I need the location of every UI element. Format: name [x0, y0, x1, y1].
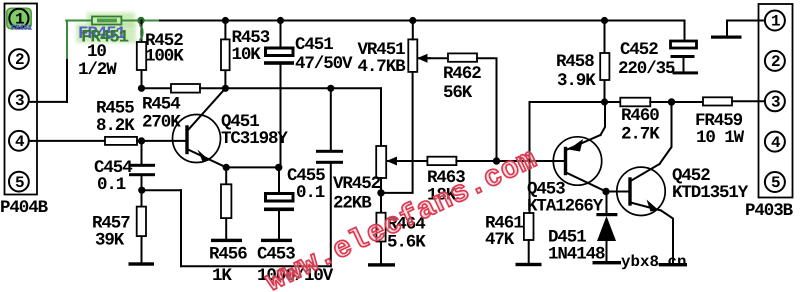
P403B pin 3 [765, 91, 785, 111]
transistor Q453 [553, 102, 606, 192]
svg-text:FR451: FR451 [11, 25, 32, 33]
svg-text:R454: R454 [142, 95, 180, 115]
svg-text:22KB: 22KB [333, 194, 372, 214]
resistor R461 [524, 213, 534, 240]
resistor R455 [105, 137, 137, 145]
svg-text:1/2W: 1/2W [78, 60, 117, 80]
P404B pin 4 [9, 131, 29, 151]
wire rail to VR452 top [380, 88, 382, 146]
junction R452 bottom [138, 85, 145, 92]
junction base node [138, 137, 145, 144]
svg-text:220/35: 220/35 [618, 59, 675, 79]
VR452 wiper arrow [387, 157, 400, 166]
resistor R463 [427, 157, 456, 165]
svg-text:ybx8: ybx8 [621, 253, 659, 271]
resistor FR459 [703, 97, 732, 105]
svg-text:0.1: 0.1 [296, 183, 325, 203]
svg-text:5: 5 [771, 174, 781, 192]
ground bar under C453 [261, 239, 292, 242]
junction R458 bottom rail [601, 98, 608, 105]
junction top of VR451 [409, 17, 416, 24]
junction VR452 bottom / R464 [377, 189, 384, 196]
resistor R453 [221, 39, 230, 70]
wire R462 to junction drop [477, 58, 497, 161]
ground bar under R464 [368, 263, 395, 266]
svg-text:2.7K: 2.7K [621, 125, 660, 145]
ground bar under R461 [516, 263, 542, 266]
resistor R464 leads [380, 193, 382, 213]
P404B pin 3 [9, 90, 29, 110]
svg-text:C451: C451 [295, 35, 333, 55]
wire riser upper part highlighted green [66, 21, 68, 59]
svg-text:0.1: 0.1 [97, 175, 126, 195]
junction R462/R463/Q453 base [493, 157, 500, 164]
junction top of C451 [277, 17, 284, 24]
wire VR451 return [381, 72, 413, 193]
svg-text:10 1W: 10 1W [696, 128, 745, 148]
resistor R457 leads [141, 190, 143, 206]
svg-text:100K: 100K [145, 47, 184, 67]
svg-text:4: 4 [15, 133, 25, 151]
P404B pin 1 highlight [7, 8, 31, 29]
resistor R464 [376, 213, 385, 242]
resistor R456 leads [225, 167, 227, 184]
svg-text:8.2K: 8.2K [96, 116, 135, 136]
wire x529 vertical [530, 102, 605, 213]
wire R454 row [142, 87, 172, 89]
svg-text:2: 2 [15, 51, 25, 69]
svg-text:5: 5 [15, 174, 25, 192]
wire rail y102 [605, 101, 621, 103]
svg-text:1: 1 [771, 13, 781, 31]
wire bottom rail [181, 265, 331, 267]
wire pin3 P404B to riser [29, 101, 67, 103]
wire drop x181 [180, 190, 182, 266]
ground bar under Q452 emitter [659, 263, 687, 266]
svg-text:cn: cn [668, 253, 687, 271]
svg-text:270K: 270K [142, 113, 181, 133]
svg-text:VR452: VR452 [333, 174, 381, 194]
svg-text:10K: 10K [232, 45, 262, 65]
svg-text:P404B: P404B [0, 198, 49, 218]
junction Q453 collector / D451 / Q452 base [602, 188, 609, 195]
potentiometer VR451 [408, 39, 417, 72]
wire emitter row [226, 166, 279, 168]
junction C455 top [327, 85, 334, 92]
P404B pin 2 [9, 49, 29, 69]
wire top rail elbow to C452 [684, 21, 686, 42]
junction dot node A (green) [137, 17, 144, 24]
P403B pin 5 [765, 172, 785, 192]
svg-text:3: 3 [771, 94, 781, 112]
junction top of R458 [601, 17, 608, 24]
ground bar under C452 [673, 71, 699, 74]
resistor R462 [448, 53, 477, 61]
svg-text:): ) [136, 23, 145, 43]
resistor R452 [137, 42, 146, 70]
ground bar under D451 [593, 261, 622, 264]
svg-text:39K: 39K [95, 231, 125, 251]
resistor R458 [600, 53, 609, 80]
resistor R460 [620, 98, 650, 107]
capacitor C451 leads [280, 21, 282, 47]
resistor R454 [171, 84, 200, 93]
svg-text:10: 10 [87, 42, 106, 62]
svg-text:P403B: P403B [745, 201, 794, 221]
transistor Q452 [617, 102, 673, 263]
resistor R457 [137, 207, 146, 237]
ground bar under R457 [129, 262, 155, 265]
svg-text:C452: C452 [620, 40, 658, 60]
resistor R452 leads [141, 21, 143, 43]
P403B pin 4 [765, 132, 785, 152]
junction Q451 emitter / R456 [223, 164, 230, 171]
potentiometer VR452 [376, 146, 386, 178]
resistor R456 [221, 184, 231, 218]
wire Q453 base stub [554, 160, 566, 162]
capacitor C451 [266, 48, 294, 56]
svg-text:KTD1351Y: KTD1351Y [672, 183, 749, 203]
svg-text:R460: R460 [621, 106, 659, 126]
svg-text:R458: R458 [556, 52, 594, 72]
VR452 bottom lead [380, 178, 382, 193]
svg-text:KTA1266Y: KTA1266Y [527, 197, 604, 217]
P404B pin 1 [9, 9, 28, 29]
capacitor C453 [266, 194, 294, 202]
svg-text:3: 3 [15, 92, 25, 110]
wire C454 top lead [141, 141, 143, 164]
P403B pin 2 [765, 51, 785, 71]
wire to bottom-rail drop [142, 189, 181, 191]
wire top rail [160, 20, 685, 22]
capacitor C455 [316, 150, 343, 153]
svg-text:2: 2 [771, 53, 781, 71]
svg-text:47K: 47K [485, 230, 515, 250]
capacitor C455 lead top [330, 88, 332, 150]
capacitor C452 [671, 41, 697, 48]
junction C454/R457 [138, 187, 145, 194]
diode D451 [596, 192, 617, 263]
wire pin1 P403B to ground [727, 21, 765, 36]
svg-text:56K: 56K [443, 83, 473, 103]
wire wiper row y161 [397, 160, 427, 162]
resistor R453 leads [224, 21, 226, 40]
svg-text:47/50V: 47/50V [295, 54, 353, 74]
svg-text:1K: 1K [212, 266, 232, 286]
svg-text:1N4148: 1N4148 [548, 245, 605, 265]
wire R455 to Q451 base [137, 140, 187, 142]
wire Q452 base [606, 191, 630, 193]
wire riser lower part [66, 58, 68, 102]
wire rail y88 to VR452 [225, 87, 381, 89]
P403B pin 1 [765, 11, 785, 31]
capacitor C453 leads [278, 167, 280, 192]
svg-text:TC3198Y: TC3198Y [221, 129, 288, 149]
ground bar under R456 [211, 239, 242, 242]
VR451 wiper arrow [417, 54, 430, 63]
wire top rail green segment [66, 20, 160, 22]
resistor FR451 [92, 17, 121, 25]
wire FR459 to pin3 P403B [732, 100, 764, 102]
svg-text:R456: R456 [209, 245, 247, 265]
svg-text:R462: R462 [443, 64, 481, 84]
wire wiper to R462 [428, 57, 448, 59]
transistor Q451 [173, 88, 227, 167]
junction R460/FR459/Q452 collector [668, 98, 675, 105]
connector P404B box [5, 4, 38, 195]
resistor R458 leads [604, 21, 606, 54]
connector P403B box [759, 4, 793, 198]
P404B pin 5 [9, 172, 29, 192]
junction C451/C453 node [275, 164, 282, 171]
svg-text:4.7KB: 4.7KB [358, 57, 407, 77]
junction R453 bottom / Q451 collector [222, 85, 229, 92]
highlight halo around FR451 [87, 13, 135, 27]
wire pin4 row to R455 [29, 140, 105, 142]
junction top of R453 [222, 17, 229, 24]
wire C455 bottom riser [330, 164, 332, 267]
svg-text:3.9K: 3.9K [557, 71, 596, 91]
capacitor C454 [129, 164, 155, 167]
svg-text:4: 4 [771, 134, 781, 152]
ground bar for pin1 P403B [711, 36, 742, 39]
